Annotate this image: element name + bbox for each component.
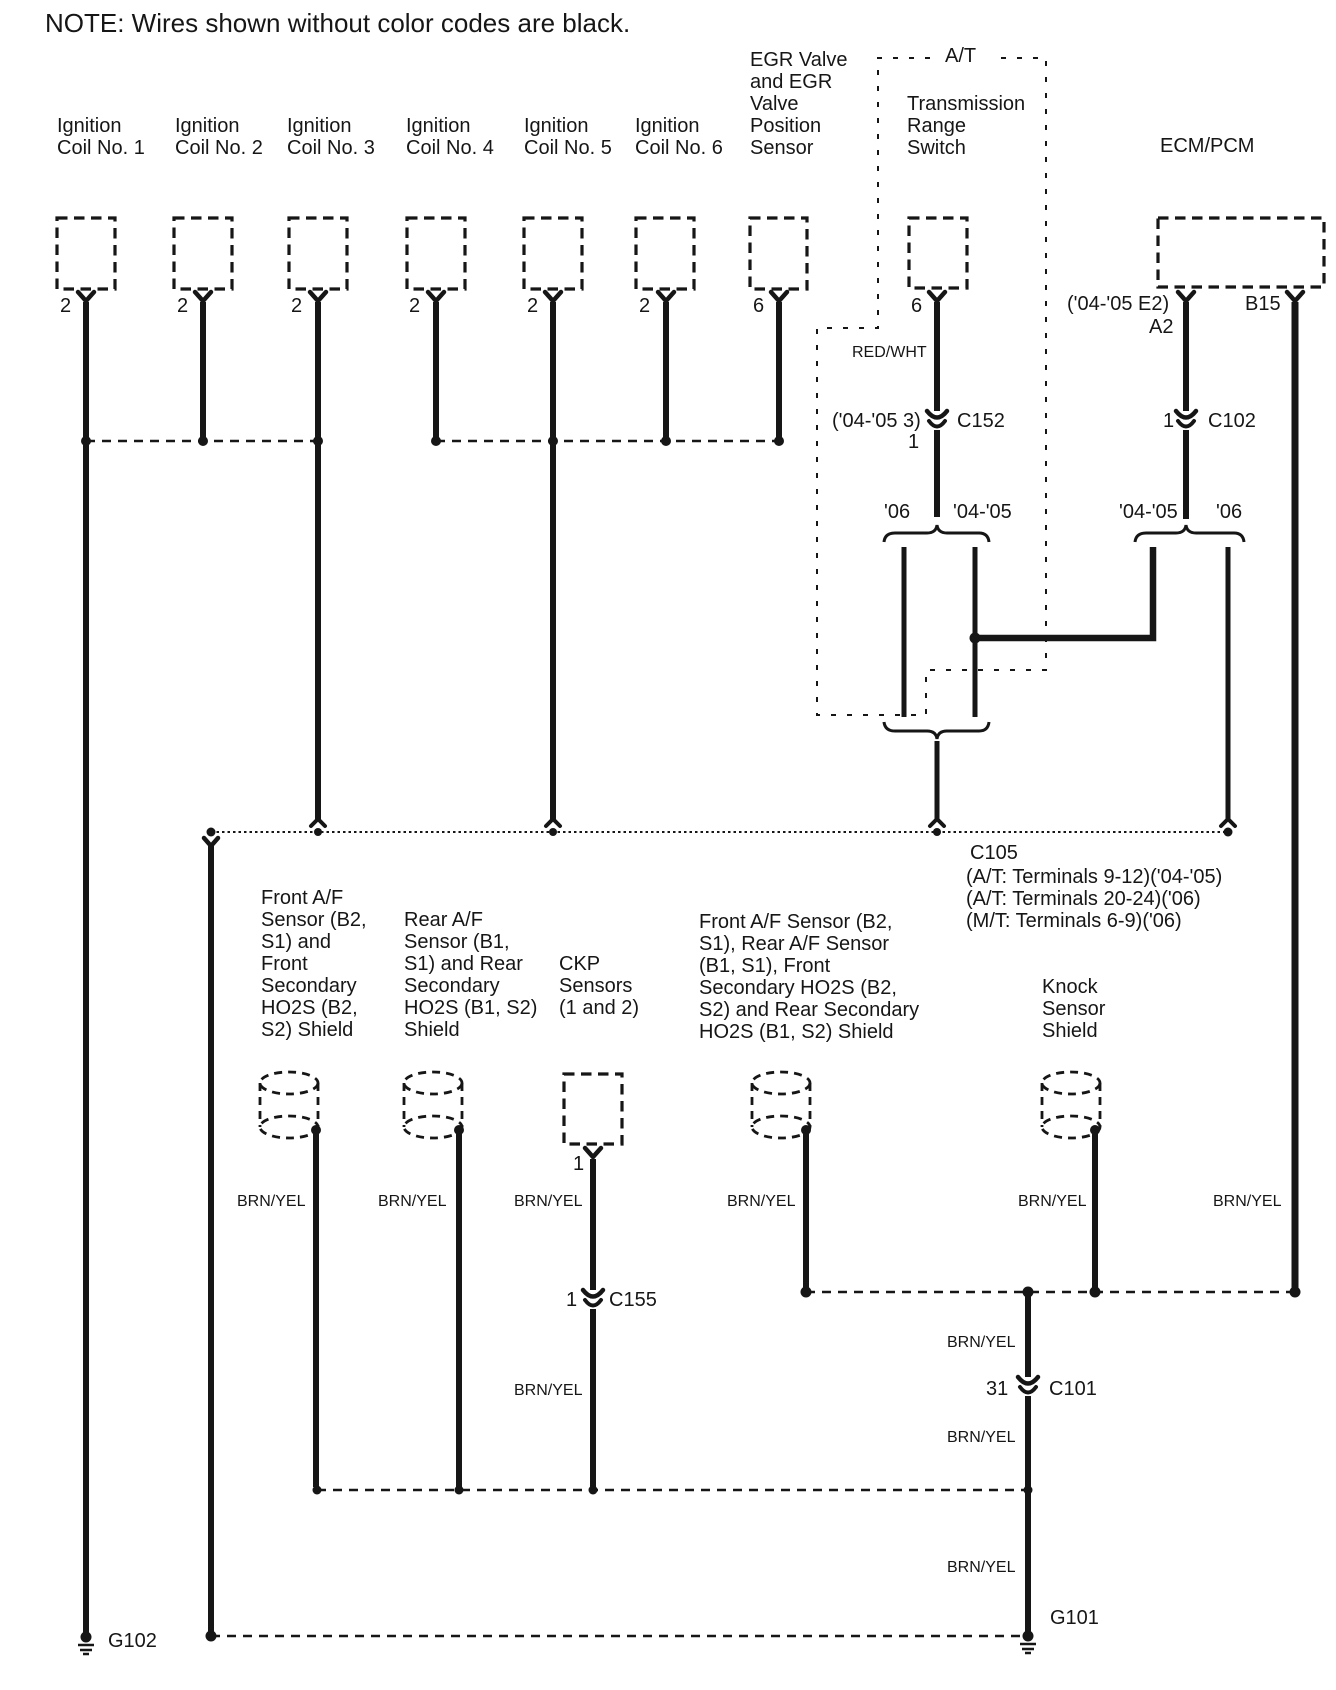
svg-text:C152: C152	[957, 410, 1005, 432]
svg-text:Sensor: Sensor	[1042, 998, 1106, 1020]
svg-text:Rear A/F: Rear A/F	[404, 909, 483, 931]
svg-text:Shield: Shield	[404, 1019, 460, 1041]
svg-text:('04-'05 3): ('04-'05 3)	[832, 410, 921, 432]
svg-text:(B1, S1), Front: (B1, S1), Front	[699, 955, 831, 977]
svg-text:Sensor: Sensor	[750, 137, 814, 159]
svg-text:Coil No. 3: Coil No. 3	[287, 137, 375, 159]
svg-text:BRN/YEL: BRN/YEL	[947, 1334, 1016, 1351]
svg-text:Ignition: Ignition	[175, 115, 240, 137]
svg-text:S1) and: S1) and	[261, 931, 331, 953]
svg-text:BRN/YEL: BRN/YEL	[947, 1559, 1016, 1576]
svg-text:2: 2	[527, 295, 538, 317]
svg-text:1: 1	[1163, 410, 1174, 432]
svg-text:Transmission: Transmission	[907, 93, 1025, 115]
svg-text:31: 31	[986, 1378, 1008, 1400]
svg-text:'04-'05: '04-'05	[1119, 501, 1178, 523]
svg-text:BRN/YEL: BRN/YEL	[237, 1193, 306, 1210]
svg-text:S2) and Rear Secondary: S2) and Rear Secondary	[699, 999, 919, 1021]
svg-text:HO2S (B2,: HO2S (B2,	[261, 997, 358, 1019]
svg-text:Ignition: Ignition	[287, 115, 352, 137]
svg-text:C101: C101	[1049, 1378, 1097, 1400]
svg-text:('04-'05 E2): ('04-'05 E2)	[1067, 293, 1169, 315]
svg-text:C105: C105	[970, 842, 1018, 864]
svg-text:Ignition: Ignition	[406, 115, 471, 137]
svg-text:Coil No. 5: Coil No. 5	[524, 137, 612, 159]
svg-text:BRN/YEL: BRN/YEL	[727, 1193, 796, 1210]
svg-text:S1), Rear A/F Sensor: S1), Rear A/F Sensor	[699, 933, 889, 955]
svg-text:BRN/YEL: BRN/YEL	[378, 1193, 447, 1210]
svg-text:BRN/YEL: BRN/YEL	[514, 1193, 583, 1210]
svg-text:S1) and Rear: S1) and Rear	[404, 953, 523, 975]
svg-text:'06: '06	[1216, 501, 1242, 523]
svg-text:HO2S (B1, S2): HO2S (B1, S2)	[404, 997, 537, 1019]
svg-text:(A/T: Terminals 9-12)('04-'05): (A/T: Terminals 9-12)('04-'05)	[966, 866, 1222, 888]
svg-text:Switch: Switch	[907, 137, 966, 159]
svg-text:2: 2	[639, 295, 650, 317]
svg-text:BRN/YEL: BRN/YEL	[514, 1382, 583, 1399]
svg-text:Front: Front	[261, 953, 308, 975]
svg-text:2: 2	[409, 295, 420, 317]
svg-text:Position: Position	[750, 115, 821, 137]
svg-text:1: 1	[566, 1289, 577, 1311]
svg-text:'06: '06	[884, 501, 910, 523]
svg-text:Sensors: Sensors	[559, 975, 632, 997]
svg-text:Ignition: Ignition	[57, 115, 122, 137]
svg-text:BRN/YEL: BRN/YEL	[1213, 1193, 1282, 1210]
svg-text:2: 2	[60, 295, 71, 317]
svg-text:Secondary HO2S (B2,: Secondary HO2S (B2,	[699, 977, 897, 999]
svg-text:Coil No. 4: Coil No. 4	[406, 137, 494, 159]
svg-text:(A/T: Terminals 20-24)('06): (A/T: Terminals 20-24)('06)	[966, 888, 1201, 910]
svg-text:S2) Shield: S2) Shield	[261, 1019, 353, 1041]
svg-text:'04-'05: '04-'05	[953, 501, 1012, 523]
svg-text:Valve: Valve	[750, 93, 799, 115]
svg-text:Sensor (B1,: Sensor (B1,	[404, 931, 510, 953]
svg-text:ECM/PCM: ECM/PCM	[1160, 135, 1254, 157]
svg-text:C102: C102	[1208, 410, 1256, 432]
svg-text:Secondary: Secondary	[404, 975, 500, 997]
svg-text:BRN/YEL: BRN/YEL	[1018, 1193, 1087, 1210]
svg-text:B15: B15	[1245, 293, 1281, 315]
svg-text:Front A/F Sensor (B2,: Front A/F Sensor (B2,	[699, 911, 892, 933]
svg-text:Coil No. 6: Coil No. 6	[635, 137, 723, 159]
svg-text:Knock: Knock	[1042, 976, 1099, 998]
svg-text:A2: A2	[1149, 316, 1173, 338]
svg-text:C155: C155	[609, 1289, 657, 1311]
svg-text:2: 2	[291, 295, 302, 317]
svg-text:6: 6	[753, 295, 764, 317]
svg-text:HO2S (B1, S2) Shield: HO2S (B1, S2) Shield	[699, 1021, 894, 1043]
svg-text:1: 1	[908, 431, 919, 453]
svg-text:G101: G101	[1050, 1607, 1099, 1629]
svg-text:Secondary: Secondary	[261, 975, 357, 997]
svg-text:CKP: CKP	[559, 953, 600, 975]
svg-text:Shield: Shield	[1042, 1020, 1098, 1042]
svg-text:Sensor (B2,: Sensor (B2,	[261, 909, 367, 931]
svg-text:(M/T: Terminals 6-9)('06): (M/T: Terminals 6-9)('06)	[966, 910, 1182, 932]
svg-text:Range: Range	[907, 115, 966, 137]
svg-text:NOTE: Wires shown without colo: NOTE: Wires shown without color codes ar…	[45, 8, 630, 38]
svg-text:A/T: A/T	[945, 45, 976, 67]
svg-text:Ignition: Ignition	[635, 115, 700, 137]
svg-text:1: 1	[573, 1153, 584, 1175]
svg-text:and EGR: and EGR	[750, 71, 832, 93]
svg-text:2: 2	[177, 295, 188, 317]
svg-text:BRN/YEL: BRN/YEL	[947, 1429, 1016, 1446]
svg-text:G102: G102	[108, 1630, 157, 1652]
svg-text:6: 6	[911, 295, 922, 317]
svg-text:Coil No. 2: Coil No. 2	[175, 137, 263, 159]
svg-text:Front A/F: Front A/F	[261, 887, 343, 909]
svg-text:Ignition: Ignition	[524, 115, 589, 137]
svg-text:EGR Valve: EGR Valve	[750, 49, 847, 71]
svg-text:RED/WHT: RED/WHT	[852, 344, 927, 361]
svg-text:(1 and 2): (1 and 2)	[559, 997, 639, 1019]
svg-text:Coil No. 1: Coil No. 1	[57, 137, 145, 159]
